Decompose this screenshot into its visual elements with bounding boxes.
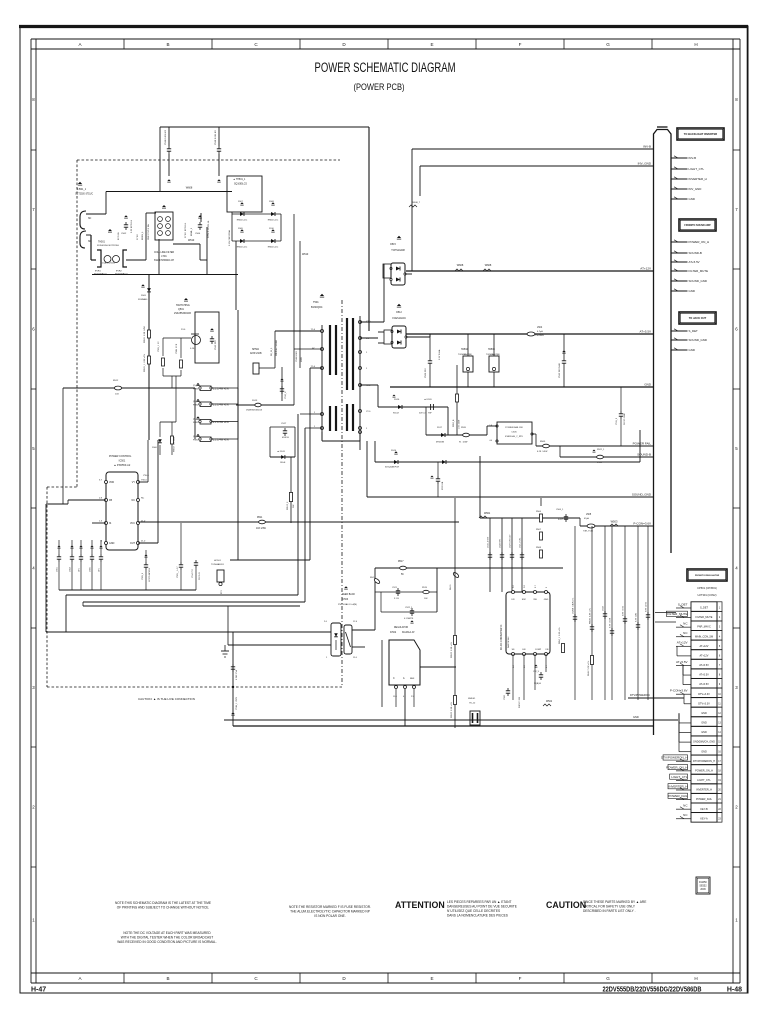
svg-text:FRM2: FRM2 [193, 405, 199, 407]
svg-text:6.8V 33 B: 6.8V 33 B [623, 605, 625, 616]
svg-text:DR: DR [511, 599, 515, 601]
svg-text:91D-E: 91D-E [393, 413, 400, 415]
svg-text:GND: GND [633, 715, 639, 719]
svg-text:GND: GND [644, 383, 652, 387]
svg-text:CRITICAL FOR SAFETY USE ONLY: CRITICAL FOR SAFETY USE ONLY [583, 905, 636, 909]
svg-text:400V: 400V [301, 357, 303, 362]
svg-text:4.7µH: 4.7µH [537, 331, 543, 333]
svg-text:FR501_1 2.2K ±5%: FR501_1 2.2K ±5% [144, 354, 146, 372]
svg-text:FB.16: FB.16 [370, 577, 376, 579]
svg-text:C51B 0.001 KX: C51B 0.001 KX [165, 129, 167, 145]
svg-text:S_DET: S_DET [689, 329, 699, 333]
svg-text:6.3V 47B: 6.3V 47B [636, 613, 638, 622]
svg-text:1.2W: 1.2W [597, 462, 602, 464]
svg-text:G: G [606, 976, 610, 981]
svg-text:RM11C-DC: RM11C-DC [237, 246, 248, 248]
svg-text:F: F [519, 976, 522, 981]
svg-text:IC502: IC502 [390, 632, 397, 634]
svg-text:T02MAA02(B): T02MAA02(B) [486, 353, 500, 356]
svg-text:EVR2: EVR2 [116, 271, 122, 273]
svg-text:INV_GND: INV_GND [689, 187, 702, 191]
svg-text:KEY-A: KEY-A [700, 817, 708, 820]
svg-text:RM11C-DC: RM11C-DC [237, 219, 248, 221]
svg-text:H: H [694, 42, 697, 47]
svg-text:C518_U: C518_U [285, 391, 287, 399]
svg-text:E: E [430, 42, 433, 47]
svg-text:C522_1: C522_1 [405, 607, 413, 609]
svg-text:OUT: OUT [130, 542, 136, 545]
svg-text:Y55.0: Y55.0 [143, 475, 149, 477]
svg-text:JJ501_1: JJ501_1 [77, 188, 87, 191]
svg-text:0.007: 0.007 [558, 519, 564, 521]
svg-text:R511: R511 [257, 517, 263, 519]
svg-text:EVR 508CV: EVR 508CV [94, 274, 107, 276]
svg-text:P-CON=3.6V: P-CON=3.6V [670, 689, 688, 693]
svg-text:R522_1: R522_1 [597, 449, 605, 451]
svg-text:GND: GND [689, 197, 695, 201]
svg-text:UCX55-NP93 B: UCX55-NP93 B [149, 567, 151, 582]
svg-text:R512: R512 [113, 380, 119, 382]
svg-text:FB546 2.2K ±1%: FB546 2.2K ±1% [590, 608, 592, 624]
svg-text:D505: D505 [141, 295, 147, 297]
svg-text:EVR 508CV: EVR 508CV [115, 274, 128, 276]
svg-text:INV-B: INV-B [643, 145, 651, 149]
svg-text:SOUND_GND: SOUND_GND [632, 493, 652, 497]
svg-text:S_DET: S_DET [700, 607, 709, 610]
svg-text:REF: REF [410, 678, 415, 680]
svg-text:POWER_ON_H: POWER_ON_H [695, 769, 713, 772]
svg-text:59(B)-B: 59(B)-B [534, 683, 542, 685]
svg-text:C50B 23 K: C50B 23 K [176, 343, 178, 354]
svg-text:22DV555DB/22DV556DG/22DV586DB: 22DV555DB/22DV556DG/22DV586DB [603, 985, 702, 994]
svg-text:SMD01: SMD01 [468, 698, 476, 700]
svg-text:C516_2 56V: C516_2 56V [488, 536, 490, 548]
svg-text:THE ALUM.ELECTROLYTIC CAPACITO: THE ALUM.ELECTROLYTIC CAPACITOR MARKED N… [290, 910, 370, 914]
svg-text:GND: GND [701, 731, 707, 734]
svg-text:S_DET: S_DET [678, 602, 688, 606]
svg-text:SS24FH/0604D-CH: SS24FH/0604D-CH [154, 260, 175, 262]
svg-text:INVERTER_H: INVERTER_H [689, 177, 707, 181]
svg-text:▲ PXD55F-A2: ▲ PXD55F-A2 [114, 464, 131, 467]
svg-text:GND: GND [109, 542, 115, 545]
svg-text:LIGHT_CTL: LIGHT_CTL [689, 167, 705, 171]
svg-text:AT+5.5V: AT+5.5V [639, 330, 651, 334]
svg-text:POWER SCHEMATIC DIAGRAM: POWER SCHEMATIC DIAGRAM [315, 60, 456, 75]
svg-text:FB54_1 9.20 ±1%: FB54_1 9.20 ±1% [559, 627, 561, 644]
svg-text:C521: C521 [392, 587, 398, 589]
svg-text:R504: R504 [536, 511, 542, 513]
svg-text:POWER_ON_H: POWER_ON_H [666, 765, 687, 769]
svg-text:C509 25V: C509 25V [425, 368, 427, 378]
svg-text:TO BACKLIGHT INVERTER: TO BACKLIGHT INVERTER [684, 132, 718, 136]
svg-text:IC503: IC503 [342, 599, 349, 601]
svg-text:KTA1504G_Y_RTK: KTA1504G_Y_RTK [505, 435, 524, 438]
svg-text:D514: D514 [391, 450, 397, 452]
svg-text:C509_9: C509_9 [142, 572, 144, 580]
svg-text:DTV/POWERON_H: DTV/POWERON_H [661, 756, 688, 760]
svg-text:C506_1: C506_1 [556, 509, 564, 511]
svg-text:0.22 ECO-UL: 0.22 ECO-UL [131, 219, 133, 233]
svg-text:(2)-(2S): (2)-(2S) [193, 385, 200, 387]
svg-text:4.0: 4.0 [489, 440, 492, 442]
svg-text:3RM0 AC 5020M: 3RM0 AC 5020M [275, 340, 278, 356]
svg-text:C519_2: C519_2 [616, 417, 618, 425]
svg-text:B: B [166, 976, 169, 981]
svg-text:▲ TH501_1: ▲ TH501_1 [233, 178, 246, 181]
svg-text:4.7NF P-A: 4.7NF P-A [235, 669, 238, 680]
svg-text:DTV+3.3V: DTV+3.3V [698, 693, 710, 696]
svg-text:31SQ04N/FCH: 31SQ04N/FCH [385, 467, 399, 469]
svg-text:POWER FAIL: POWER FAIL [633, 442, 652, 446]
svg-text:GND: GND [689, 348, 695, 352]
svg-text:C509__1 4.7: C509__1 4.7 [177, 566, 179, 578]
svg-text:FR50_B: FR50_B [453, 419, 455, 427]
svg-text:ATTENTION: ATTENTION [395, 900, 445, 910]
svg-text:W503: W503 [611, 520, 618, 524]
svg-text:GND: GND [701, 712, 707, 715]
svg-text:W502: W502 [546, 701, 553, 703]
svg-text:U2T301 (CON2): U2T301 (CON2) [698, 593, 717, 597]
svg-text:CAUTION: ▲ IS THE LIVE CONNECT: CAUTION: ▲ IS THE LIVE CONNECTION [138, 697, 195, 701]
svg-text:WAS RECEIVED IN GOOD CONDITION: WAS RECEIVED IN GOOD CONDITION AND PICTU… [117, 940, 217, 944]
svg-text:SWITCHING: SWITCHING [176, 304, 190, 307]
svg-text:023P-210B: 023P-210B [250, 353, 262, 355]
svg-text:NC: NC [141, 498, 145, 500]
svg-text:Y55.0: Y55.0 [141, 480, 147, 482]
svg-text:POWER FAIL SW: POWER FAIL SW [505, 426, 523, 429]
svg-text:FILTER_MUTE: FILTER_MUTE [689, 269, 709, 273]
svg-text:AT+12V: AT+12V [677, 641, 688, 645]
svg-text:H2502: H2502 [461, 349, 468, 351]
svg-text:R505: R505 [540, 441, 546, 443]
svg-text:F/R527 226: F/R527 226 [519, 696, 521, 708]
svg-text:GND: GND [701, 750, 707, 753]
svg-text:NC: NC [88, 241, 92, 243]
svg-text:C504: C504 [195, 233, 201, 235]
svg-text:C518 0.001 KX: C518 0.001 KX [215, 130, 217, 145]
svg-text:W610: W610 [302, 253, 309, 256]
svg-text:SOUND_GND: SOUND_GND [689, 279, 707, 283]
svg-text:PNP_MAYC: PNP_MAYC [697, 626, 711, 629]
svg-text:GND: GND [701, 722, 707, 725]
svg-text:91 1/4W: 91 1/4W [459, 442, 467, 444]
svg-text:FCES10A04: FCES10A04 [392, 317, 406, 320]
svg-text:ERML_1: ERML_1 [142, 231, 144, 240]
svg-text:▲ D520: ▲ D520 [424, 398, 432, 401]
svg-text:CNE C-5C-1 6A: CNE C-5C-1 6A [147, 224, 150, 240]
svg-text:ECO-UL: ECO-UL [118, 231, 120, 240]
svg-text:650P-B: 650P-B [282, 437, 289, 439]
svg-text:AT+5.5V: AT+5.5V [699, 664, 709, 667]
svg-text:D515: D515 [390, 244, 396, 246]
svg-text:6.2K 1/4W: 6.2K 1/4W [537, 451, 547, 453]
svg-text:L504: L504 [537, 327, 543, 329]
svg-text:S1WBA60: S1WBA60 [138, 298, 148, 301]
svg-text:SOUND-B: SOUND-B [637, 453, 651, 457]
svg-text:(2)-(2S): (2)-(2S) [193, 419, 200, 421]
svg-text:W610: W610 [188, 239, 195, 242]
svg-text:POWER_ON_H: POWER_ON_H [689, 240, 710, 244]
svg-text:CP501 (CP3501): CP501 (CP3501) [697, 586, 717, 590]
svg-text:LES PIECES REPAREES PAR UN ▲ E: LES PIECES REPAREES PAR UN ▲ ETANT [447, 900, 511, 904]
svg-text:C514 Y5Y: C514 Y5Y [192, 568, 194, 578]
svg-text:G: G [606, 42, 610, 47]
svg-text:H-47: H-47 [31, 987, 46, 994]
svg-text:AT+12V: AT+12V [700, 645, 709, 648]
svg-text:KEY-B: KEY-B [700, 808, 708, 811]
svg-text:H-48: H-48 [727, 987, 742, 994]
svg-text:(POWER PCB): (POWER PCB) [354, 82, 405, 93]
svg-text:50V 0.01: 50V 0.01 [199, 571, 201, 580]
svg-text:AT+12V: AT+12V [640, 267, 651, 271]
svg-text:AT+5.5V: AT+5.5V [689, 260, 700, 264]
svg-text:27.9V: 27.9V [137, 234, 139, 240]
svg-text:AT+5.5V: AT+5.5V [699, 674, 709, 677]
svg-text:180-E: 180-E [280, 462, 286, 464]
svg-text:IC501: IC501 [119, 460, 126, 463]
svg-text:VCC: VCC [130, 522, 135, 525]
svg-text:5.8: 5.8 [489, 425, 492, 427]
svg-text:R520: R520 [461, 427, 467, 429]
svg-text:IS: IS [109, 522, 112, 525]
svg-text:REGULATOR: REGULATOR [394, 626, 408, 629]
svg-text:F: F [519, 42, 522, 47]
svg-text:SW: SW [533, 599, 536, 601]
svg-text:CAUTION: CAUTION [546, 900, 586, 910]
svg-text:W608: W608 [186, 187, 193, 190]
svg-text:SQ1065LCS: SQ1065LCS [234, 184, 247, 186]
svg-text:CCT2020-3751/C: CCT2020-3751/C [75, 194, 93, 196]
svg-text:SRC: SRC [522, 599, 527, 601]
svg-text:SP502: SP502 [252, 349, 260, 351]
svg-text:INV_GND: INV_GND [638, 162, 652, 166]
svg-text:L505: L505 [586, 514, 592, 516]
svg-text:DA575P-MX: DA575P-MX [507, 636, 510, 648]
svg-text:LIGHT_CTL: LIGHT_CTL [697, 779, 711, 782]
svg-text:POWER CONTROL: POWER CONTROL [109, 455, 132, 458]
svg-text:C527 16V 0.27: C527 16V 0.27 [510, 534, 512, 548]
svg-text:DTV/POWERON_H: DTV/POWERON_H [693, 760, 715, 763]
svg-text:0.1 MMTS: 0.1 MMTS [404, 618, 414, 620]
svg-text:FR513_2: FR513_2 [287, 501, 289, 510]
svg-text:Q501: Q501 [178, 308, 185, 311]
svg-text:R508: R508 [536, 547, 542, 549]
svg-text:P-CON=3.6V: P-CON=3.6V [633, 522, 651, 526]
svg-text:W608: W608 [485, 264, 492, 267]
svg-text:3.1 B: 3.1 B [394, 598, 399, 600]
svg-text:C52_9: C52_9 [533, 671, 540, 673]
svg-text:C513 25V: C513 25V [215, 340, 217, 350]
svg-text:EN: EN [523, 649, 526, 651]
svg-text:INV-B: INV-B [689, 156, 697, 160]
svg-text:FR507 1.8 1/4W: FR507 1.8 1/4W [174, 437, 176, 452]
svg-text:FR501 2.2K 1/4W: FR501 2.2K 1/4W [144, 326, 146, 343]
svg-text:H: H [694, 976, 697, 981]
svg-text:FILTER_MUTE: FILTER_MUTE [696, 616, 713, 619]
svg-text:FB: FB [109, 499, 112, 502]
svg-text:GND: GND [689, 289, 695, 293]
svg-text:R517: R517 [398, 561, 404, 563]
svg-text:(1.5A_L_250V): (1.5A_L_250V) [101, 262, 115, 265]
svg-text:SINCE THESE PARTS MARKED BY ▲: SINCE THESE PARTS MARKED BY ▲ ARE [583, 900, 646, 904]
svg-text:C525R 0.A/F±1%: C525R 0.A/F±1% [572, 598, 575, 614]
svg-text:R519: R519 [422, 587, 428, 589]
svg-text:D512: D512 [396, 312, 402, 314]
svg-text:C52_1 6.81: C52_1 6.81 [520, 537, 522, 548]
svg-text:FB.19: FB.19 [450, 584, 452, 590]
svg-text:AT+12V: AT+12V [700, 654, 709, 657]
svg-text:TCHS10A08: TCHS10A08 [391, 249, 405, 252]
svg-text:RM11C-DC: RM11C-DC [268, 246, 279, 248]
svg-text:C524 56V: C524 56V [500, 538, 502, 548]
svg-text:270V 0.1 ECO-UL: 270V 0.1 ECO-UL [208, 220, 210, 238]
svg-text:LIGHT_CTL: LIGHT_CTL [671, 775, 688, 779]
svg-text:D517: D517 [437, 427, 443, 429]
svg-text:DESCRIBED IN PARTS LIST ONLY .: DESCRIBED IN PARTS LIST ONLY . [583, 909, 636, 913]
svg-text:TICM4A0201: TICM4A0201 [211, 563, 225, 566]
svg-text:NOTE:THE DC VOLTAGE AT EACH PA: NOTE:THE DC VOLTAGE AT EACH PART WAS MEA… [123, 931, 211, 935]
svg-text:EVR1: EVR1 [95, 271, 101, 273]
svg-text:N`UTILISEZ QUE CELLE DECRITES: N`UTILISEZ QUE CELLE DECRITES [447, 909, 500, 913]
svg-text:6.3V C538: 6.3V C538 [610, 617, 612, 628]
svg-text:5K: 5K [401, 574, 404, 576]
svg-text:(2)-(2S): (2)-(2S) [193, 401, 200, 403]
svg-text:T501: T501 [313, 301, 319, 304]
svg-text:FB.42 5.3K ±1%: FB.42 5.3K ±1% [588, 661, 590, 676]
svg-text:DANGEREUSES AU POINT DE VUE SE: DANGEREUSES AU POINT DE VUE SECURITE [447, 905, 517, 909]
svg-text:FR505 2.2K ±1%: FR505 2.2K ±1% [451, 702, 453, 718]
svg-text:FROM/TO REGULATOR: FROM/TO REGULATOR [695, 574, 720, 577]
svg-text:1.65 1/4W: 1.65 1/4W [459, 420, 461, 429]
svg-text:FRM3: FRM3 [193, 422, 199, 424]
svg-text:AT+5.5V: AT+5.5V [699, 683, 709, 686]
svg-text:C516 0.022: C516 0.022 [296, 350, 298, 362]
svg-text:AT+5.5V: AT+5.5V [676, 660, 688, 664]
svg-text:FEED BACK: FEED BACK [342, 593, 355, 596]
svg-text:DC-DC CONVERTER IC: DC-DC CONVERTER IC [501, 624, 503, 650]
svg-text:27.9V ECO-UL: 27.9V ECO-UL [185, 222, 187, 238]
svg-text:NOTE:THIS SCHEMATIC DIAGRAM IS: NOTE:THIS SCHEMATIC DIAGRAM IS THE LATES… [115, 901, 211, 905]
svg-text:GND(5M)/CH_GND: GND(5M)/CH_GND [693, 741, 715, 744]
svg-text:IS NON POLAR ONE.: IS NON POLAR ONE. [314, 914, 345, 918]
svg-text:NOTE:THE RESISTOR MARKED F IS: NOTE:THE RESISTOR MARKED F IS FUSE RESIS… [289, 905, 371, 909]
svg-text:E: E [430, 976, 433, 981]
svg-text:250V 4/B: 250V 4/B [442, 481, 444, 490]
svg-text:1.9V 5.8 AL: 1.9V 5.8 AL [438, 348, 441, 360]
svg-text:FR503 2.2K ±1%: FR503 2.2K ±1% [451, 642, 453, 658]
svg-text:WITH THE DIGITAL TESTER WHEN T: WITH THE DIGITAL TESTER WHEN THE COLOR B… [121, 935, 213, 939]
svg-text:1N4935/U56013: 1N4935/U56013 [246, 410, 263, 412]
svg-text:1.2 M 5W R50A: 1.2 M 5W R50A [228, 230, 231, 246]
svg-text:SOUND_GND: SOUND_GND [689, 338, 707, 342]
svg-text:FRM1: FRM1 [193, 389, 199, 391]
svg-text:▲ D511: ▲ D511 [277, 450, 286, 453]
svg-text:GND: GND [544, 599, 549, 601]
svg-text:INVERTER_H: INVERTER_H [669, 784, 688, 788]
svg-text:FRM4: FRM4 [193, 440, 199, 442]
svg-text:YD-12: YD-12 [469, 703, 476, 705]
svg-text:C505: C505 [511, 432, 517, 434]
svg-text:C509_1 23: C509_1 23 [158, 341, 160, 352]
svg-text:COMP: COMP [535, 649, 542, 651]
svg-text:DTV+3.3V: DTV+3.3V [698, 702, 710, 705]
svg-text:W508_7: W508_7 [412, 202, 421, 204]
svg-text:103 1/4W: 103 1/4W [256, 528, 267, 530]
svg-text:OF PRINTING AND SUBJECT TO CHA: OF PRINTING AND SUBJECT TO CHANGE WITHOU… [117, 905, 210, 909]
svg-text:RM11C-DC: RM11C-DC [268, 219, 279, 221]
svg-text:POWER_FAIL: POWER_FAIL [696, 798, 713, 801]
svg-text:TH501: TH501 [98, 242, 106, 244]
svg-text:D513: D513 [252, 400, 258, 402]
svg-text:SOUND-B: SOUND-B [689, 251, 702, 255]
svg-text:NC: NC [132, 499, 136, 502]
svg-text:T02MAA02(B): T02MAA02(B) [458, 353, 472, 356]
svg-text:2SK2553/D1NR: 2SK2553/D1NR [174, 312, 191, 315]
svg-text:COLL.LINE FILTER: COLL.LINE FILTER [154, 252, 174, 254]
svg-text:B13DQD4: B13DQD4 [311, 306, 323, 309]
svg-text:HC501: HC501 [214, 560, 222, 562]
svg-text:(2)-(2S): (2)-(2S) [193, 436, 200, 438]
svg-text:C517: C517 [281, 423, 287, 425]
svg-text:KIA431A-AT: KIA431A-AT [402, 631, 415, 634]
svg-text:ERML_1: ERML_1 [191, 227, 193, 236]
svg-text:FB_12_1: FB_12_1 [271, 347, 273, 356]
svg-text:47µH: 47µH [584, 518, 590, 520]
svg-text:TO JACK OUT: TO JACK OUT [689, 316, 707, 320]
svg-text:C502: C502 [121, 233, 127, 235]
svg-text:INVERTER_H: INVERTER_H [696, 789, 712, 792]
svg-text:W601: W601 [484, 512, 491, 515]
svg-text:FROM/TO SOUND AMP: FROM/TO SOUND AMP [684, 224, 711, 227]
svg-text:C51B_1 250V: C51B_1 250V [236, 696, 238, 710]
svg-text:T502B05: T502B05 [535, 335, 545, 337]
svg-text:B: B [166, 42, 169, 47]
svg-text:D516: D516 [394, 399, 400, 401]
svg-text:56V 25 NHE: 56V 25 NHE [624, 413, 626, 425]
svg-text:DTV/POWERON: DTV/POWERON [630, 693, 650, 697]
svg-text:2006: 2006 [700, 888, 706, 891]
svg-text:MTZ18B: MTZ18B [436, 442, 445, 444]
svg-text:MAIN_CON_5M: MAIN_CON_5M [695, 635, 713, 638]
svg-text:VDD: VDD [109, 481, 114, 484]
svg-text:W608: W608 [457, 264, 464, 267]
svg-text:PS2501AL2-1-4(M): PS2501AL2-1-4(M) [338, 603, 357, 606]
svg-text:LTD1: LTD1 [161, 256, 167, 258]
svg-text:POWER_FAIL: POWER_FAIL [668, 794, 688, 798]
svg-text:6.8V 22 B: 6.8V 22 B [646, 601, 648, 612]
svg-text:R507: R507 [536, 529, 542, 531]
svg-text:C512 56V NHE: C512 56V NHE [559, 363, 561, 378]
svg-text:NC: NC [88, 218, 92, 220]
svg-text:5195024SL/S3T2/25H: 5195024SL/S3T2/25H [97, 245, 119, 247]
svg-text:VY: VY [132, 481, 136, 484]
svg-text:DANS LA NOMENCLATURE DES PIECE: DANS LA NOMENCLATURE DES PIECES [447, 914, 508, 918]
